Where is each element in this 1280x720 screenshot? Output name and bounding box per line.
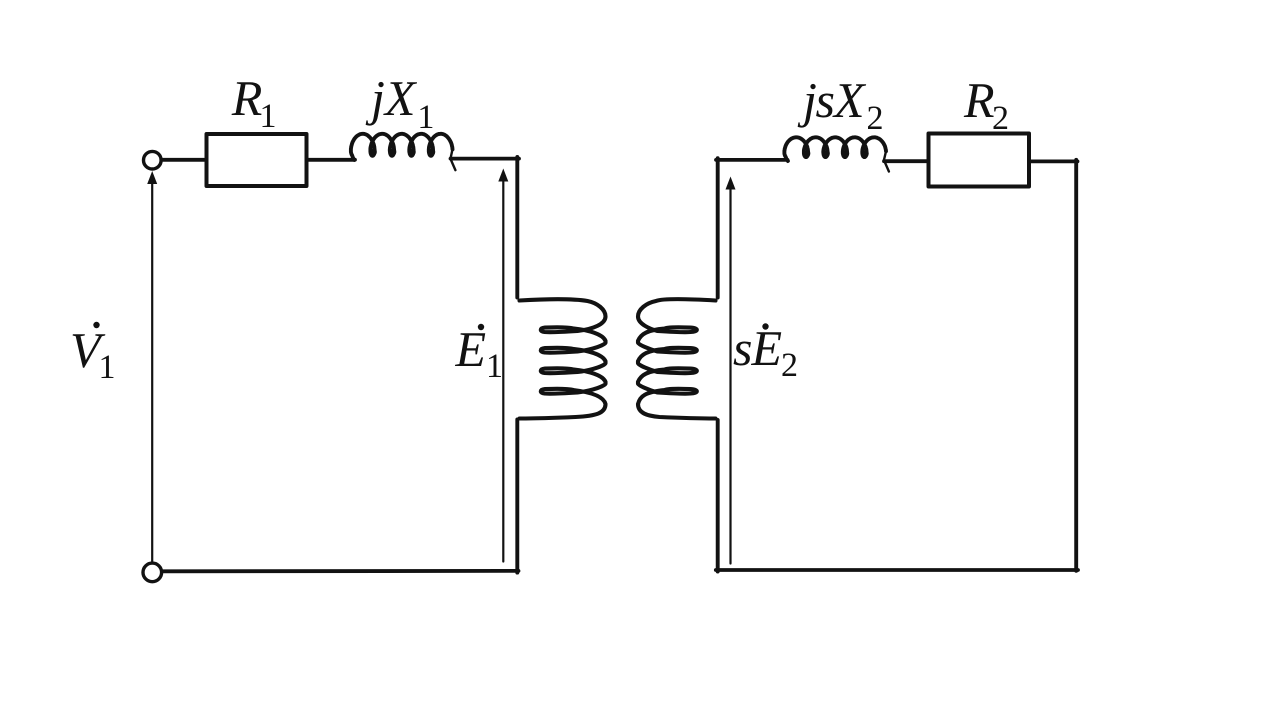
label V1 [73,334,106,367]
wire: right loop top-left corner to jsX2 [716,158,788,162]
label E1 [455,333,485,366]
label jX1 [366,82,384,126]
inductor jX1 [351,134,453,160]
wire jsX2 to R2 [884,159,930,163]
transformer secondary winding sE2 [638,299,716,418]
arrow V1 head [147,171,157,184]
wire: right loop right-side vertical [1074,160,1078,571]
label sE2 [734,341,751,365]
jsX2 coil loop blobs [803,149,812,159]
wire: right loop left-side upper vertical [716,158,720,297]
label R2 [964,84,994,117]
wire: left loop bottom [162,569,519,573]
wire: left loop right-side lower vertical [515,420,519,573]
label jsX2 [798,84,816,128]
arrow sE2 head [726,177,736,190]
E1 overdot [478,324,484,330]
arrow E1 head [498,169,508,182]
arrow E1 line [502,178,504,562]
wire: right loop left-side lower vertical [716,420,720,572]
wire R2 to corner [1029,159,1078,163]
arrow sE2 line [729,188,731,564]
label R1 [232,82,262,115]
jX1 coil loop blobs [369,147,378,157]
wire R1 to jX1 [307,158,356,162]
V1 overdot [93,322,99,328]
jX1 end tail [450,149,455,170]
inductor jsX2 [784,137,886,161]
arrow V1 line [151,180,153,563]
resistor R1 [207,134,307,186]
resistor R2 [929,134,1030,187]
sE2 overdot [762,323,768,329]
wire: right loop bottom [716,568,1078,572]
wire jX1 to corner [451,157,520,161]
transformer primary winding E1 [520,299,606,418]
wire: left loop right-side upper vertical [515,157,519,298]
jsX2 end tail [884,151,889,171]
terminal bottom-left [143,563,162,582]
wire terminal to R1 [161,158,207,162]
terminal top-left [144,151,162,169]
